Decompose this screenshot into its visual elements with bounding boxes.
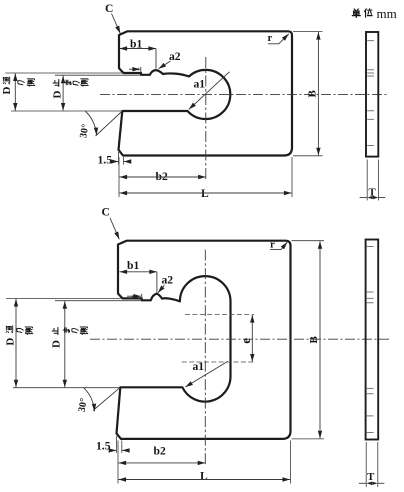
dimension line D go side xyxy=(14,73,16,110)
dimension line D stop side (bottom) xyxy=(64,301,66,387)
plate outline with slot and elongated gauging hole (bottom view) xyxy=(117,241,291,439)
unit note xyxy=(352,9,360,17)
svg-text:D: D xyxy=(52,91,64,99)
svg-text:L: L xyxy=(201,187,209,200)
vertical centerline through hole a1 xyxy=(205,57,207,181)
hidden edge ticks (bottom) xyxy=(367,247,374,433)
svg-text:mm: mm xyxy=(377,6,397,21)
dimension e reference lines xyxy=(185,314,254,316)
svg-text:a2: a2 xyxy=(162,274,174,287)
dimension line D go side (bottom) xyxy=(15,299,17,387)
dimension B (bottom) xyxy=(292,240,325,242)
svg-text:D: D xyxy=(51,340,63,348)
svg-text:D: D xyxy=(1,87,13,95)
dimension line D stop side xyxy=(62,76,64,111)
svg-text:T: T xyxy=(367,471,375,483)
dimension D (go side) extension lines (bottom) xyxy=(6,298,122,300)
hidden edge ticks xyxy=(367,41,374,146)
svg-text:a1: a1 xyxy=(194,78,206,91)
svg-text:a2: a2 xyxy=(169,50,181,63)
svg-text:L: L xyxy=(200,470,208,483)
horizontal centerline xyxy=(100,94,389,96)
side view plate section (bottom) xyxy=(366,240,379,440)
svg-text:b1: b1 xyxy=(127,259,139,272)
svg-text:r: r xyxy=(268,32,273,44)
svg-text:e: e xyxy=(238,338,253,344)
vertical centerline through hole (bottom) xyxy=(204,250,206,467)
svg-text:B: B xyxy=(307,90,319,98)
svg-text:B: B xyxy=(308,336,320,344)
dimension B xyxy=(293,31,323,33)
side view plate section xyxy=(366,32,378,157)
svg-text:C: C xyxy=(105,2,113,15)
plate outline with slot and gauging hole (top view) xyxy=(119,31,293,155)
30 degree bevel annotation (bottom) xyxy=(93,387,120,410)
svg-text:b2: b2 xyxy=(154,445,166,458)
30 degree bevel annotation xyxy=(96,111,123,136)
svg-text:b2: b2 xyxy=(156,170,168,183)
svg-text:D: D xyxy=(5,338,17,346)
svg-text:C: C xyxy=(102,206,110,219)
svg-text:1.5: 1.5 xyxy=(98,153,113,166)
dimension D (go side) extension lines xyxy=(5,72,123,74)
dimension e xyxy=(251,315,253,362)
svg-text:r: r xyxy=(270,239,275,251)
horizontal centerline (bottom) xyxy=(90,338,389,340)
svg-text:1.5: 1.5 xyxy=(96,440,111,453)
